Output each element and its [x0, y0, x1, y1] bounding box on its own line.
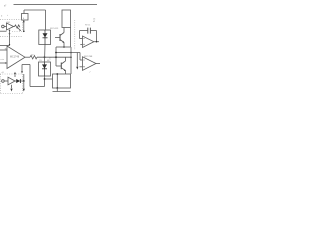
op-amp U3 main	[7, 46, 25, 69]
wire node rail vertical x23.8 upper	[23, 20, 25, 32]
wire under U4	[11, 85, 13, 89]
Q2 emitter arrowhead	[64, 69, 66, 71]
wire V+ horizontal y10	[24, 9, 46, 11]
arrowhead up into R1 rail	[23, 20, 25, 22]
junction	[23, 80, 25, 82]
wire Q2 emitter drop	[65, 71, 67, 74]
wire U3 out	[25, 56, 30, 58]
junction	[55, 56, 57, 58]
junction	[55, 52, 57, 54]
arrowhead -V	[23, 89, 25, 92]
wire input plus y63	[0, 62, 7, 64]
wire input to U1	[4, 26, 6, 28]
wire right rail down	[70, 47, 72, 74]
wire top rail	[14, 4, 98, 6]
svg-text:MC1748: MC1748	[84, 56, 93, 58]
junction feedback/output	[96, 41, 98, 43]
wire between D1 and D2	[44, 45, 47, 63]
transistor Q1 base bar	[59, 34, 61, 41]
boundary dash under comparator	[0, 35, 23, 37]
wire bottom return	[30, 86, 45, 88]
junction on boundary	[23, 31, 25, 33]
wire below M1	[53, 88, 71, 92]
diode D1 (zener, down)	[43, 33, 48, 37]
diode D1 box	[39, 30, 51, 45]
lamp L1 box (top middle)	[62, 10, 71, 28]
svg-text:4: 4	[23, 18, 25, 20]
wire through M1	[56, 74, 58, 88]
resistor R2 zigzag	[14, 25, 20, 28]
wire corner down to U5	[79, 53, 81, 61]
input terminal circle	[2, 25, 5, 28]
arrowhead up	[14, 72, 16, 74]
wire drop to D1 box	[45, 10, 47, 30]
minus mark	[5, 48, 7, 50]
wire Q2 collector up	[65, 57, 67, 61]
Q1 base wire	[55, 37, 60, 39]
svg-text:b: b	[1, 16, 3, 18]
junction node D	[44, 56, 46, 58]
wire collector drop	[63, 28, 65, 33]
wire tap to U4 out	[23, 74, 25, 81]
capacitor C1	[88, 28, 91, 34]
resistor R3 zigzag	[30, 56, 37, 59]
arrowhead -V under U4	[10, 89, 12, 92]
arrowhead onto U2	[9, 44, 11, 46]
diode D3	[16, 79, 20, 83]
wire into U2	[80, 38, 83, 40]
wire stub with up arrow	[14, 73, 16, 77]
arrow to node rail	[18, 28, 21, 31]
wire into U5	[80, 59, 83, 61]
wire bottom of Q1 cell	[56, 46, 71, 48]
plus mark	[9, 33, 11, 35]
plus mark	[5, 62, 7, 64]
svg-text:MC1413: MC1413	[50, 28, 59, 30]
boundary dash top-left block	[0, 19, 22, 21]
plus mark	[83, 44, 84, 45]
plus mark	[83, 66, 84, 67]
arrowhead into block	[21, 71, 23, 73]
wire tap down	[21, 65, 23, 73]
diode D2 (zener, down)	[42, 64, 47, 68]
svg-text:+*: +*	[89, 72, 91, 74]
svg-text:t.: t.	[7, 14, 9, 17]
Q1 emitter	[60, 40, 64, 43]
wire drop to R-box	[23, 10, 25, 14]
input terminal circle	[2, 80, 5, 83]
wire C1 to feedback	[90, 30, 96, 32]
wire to C1	[80, 30, 88, 32]
svg-text:k2: k2	[93, 21, 96, 23]
wire aux input y31	[0, 30, 7, 32]
wire ground branch	[76, 53, 78, 67]
Q1 emitter arrowhead	[62, 41, 64, 43]
op-amp U1 (top-left buffer)	[7, 23, 14, 30]
svg-text:R9 1k: R9 1k	[85, 25, 90, 27]
op-amp U2 integrator	[83, 36, 94, 48]
wire + input U5	[80, 66, 83, 68]
svg-text:MC1748: MC1748	[10, 56, 20, 59]
wire left return up	[29, 65, 31, 87]
transistor Q2 base bar	[60, 63, 62, 70]
wire apex to D3	[15, 80, 16, 82]
boundary dash right edge of top-left block	[22, 20, 24, 32]
wire down-left rail	[55, 47, 57, 66]
boundary dash bottom-left right	[22, 74, 24, 94]
wire input A y45.5	[0, 45, 10, 47]
svg-text:1N: 1N	[39, 60, 42, 62]
Q2 collector	[61, 61, 65, 64]
arrowhead -V supply	[76, 67, 78, 70]
junction under U1	[9, 30, 10, 31]
minus mark	[83, 38, 84, 40]
resistor R1 box	[22, 14, 29, 21]
boundary dash bottom-left bottom	[1, 93, 23, 95]
Q2 base wire	[56, 65, 61, 67]
wire feedback down	[96, 31, 98, 42]
box meter M1	[53, 74, 71, 88]
wire right of lamp down	[70, 28, 72, 48]
Q2 emitter	[61, 68, 65, 71]
wire + input U2	[80, 44, 82, 46]
junction	[56, 87, 58, 89]
U5 output wire	[96, 63, 100, 65]
boundary dash bottom-left top	[0, 73, 23, 75]
U2 output wire	[94, 41, 99, 43]
wire emitter drop	[63, 43, 65, 48]
boundary dash bottom-left left	[0, 74, 2, 94]
wire node down	[23, 81, 25, 88]
wire node out	[45, 78, 53, 80]
svg-text:MC*: MC*	[47, 60, 51, 62]
wire top link	[22, 64, 30, 66]
junction	[70, 56, 72, 58]
junction right rail	[70, 52, 72, 54]
minus mark	[83, 59, 84, 61]
boundary dash right section	[74, 20, 76, 50]
junction	[63, 46, 65, 48]
wire y52 link	[56, 52, 80, 54]
op-amp U5 right	[83, 57, 97, 71]
arrowhead	[19, 30, 21, 32]
svg-text:d1: d1	[2, 72, 5, 74]
svg-text:e.in: e.in	[1, 59, 5, 61]
wire inverting input drop	[79, 31, 81, 39]
wire R3 to node	[37, 56, 71, 58]
Q1 collector	[60, 33, 64, 36]
junction	[44, 78, 46, 80]
wire into U4	[4, 80, 8, 82]
diode D2 box	[39, 62, 51, 76]
boundary dash lower-left segment	[12, 31, 23, 33]
op-amp U4	[8, 77, 15, 85]
junction	[56, 73, 58, 75]
wire stub below U1	[9, 30, 11, 46]
svg-text:a*: a*	[4, 5, 6, 8]
wire below D2	[44, 76, 46, 87]
wire input minus y50	[0, 49, 7, 51]
wire D3 to node	[20, 80, 23, 82]
